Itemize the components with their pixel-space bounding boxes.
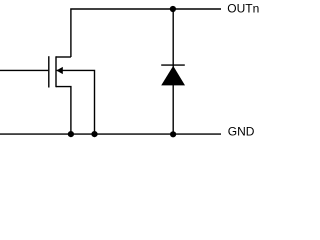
svg-text:OUTn: OUTn: [227, 2, 259, 16]
svg-text:GND: GND: [228, 125, 255, 139]
